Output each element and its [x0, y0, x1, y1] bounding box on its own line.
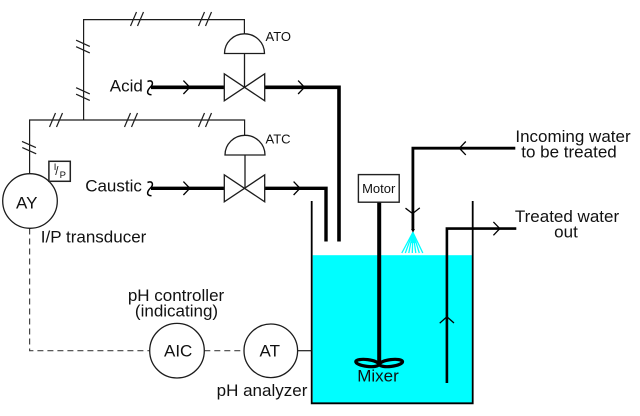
svg-text:(indicating): (indicating): [135, 302, 218, 321]
svg-text:out: out: [554, 222, 578, 241]
svg-text:Acid: Acid: [110, 77, 143, 96]
svg-text:AY: AY: [16, 193, 37, 212]
svg-text:to be treated: to be treated: [521, 142, 616, 161]
svg-text:I/P transducer: I/P transducer: [41, 228, 147, 247]
svg-text:AT: AT: [260, 342, 280, 361]
svg-text:Motor: Motor: [362, 181, 396, 196]
svg-text:ATO: ATO: [266, 29, 292, 44]
svg-text:P: P: [60, 170, 66, 181]
svg-text:ATC: ATC: [266, 132, 291, 147]
svg-text:pH analyzer: pH analyzer: [217, 381, 308, 400]
svg-text:AIC: AIC: [164, 342, 192, 361]
svg-text:Caustic: Caustic: [85, 177, 142, 196]
svg-text:Mixer: Mixer: [357, 367, 399, 386]
